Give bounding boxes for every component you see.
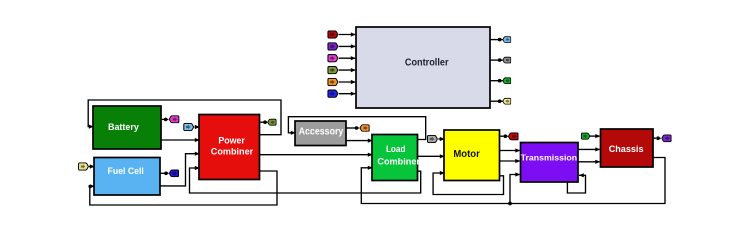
svg-text:Power: Power — [218, 135, 245, 146]
wire fuelcell out1 -> dark blue tag — [160, 172, 165, 174]
wire controller output 4 — [490, 100, 503, 102]
arrow into Transmission in2 — [515, 159, 520, 163]
wire Motor out1 -> red tag — [500, 135, 504, 137]
tag controller-in 3 (magenta) — [328, 55, 338, 62]
svg-text:Combiner: Combiner — [377, 156, 420, 167]
tag fuelcell-in source (pale yellow) — [79, 163, 89, 170]
wire Chassis out1 -> purple tag — [652, 137, 656, 139]
tag motor-in source (gray) — [428, 135, 438, 142]
wire battery out2 -> PowerCombiner in2 — [161, 139, 198, 141]
svg-text:Transmission: Transmission — [521, 153, 578, 163]
tag controller-in 5 (orange) — [328, 78, 338, 85]
tag fuelcell-out (dark blue, sink) — [169, 170, 178, 177]
block Controller — [356, 27, 490, 108]
tag controller-out 3 (green) — [503, 78, 511, 84]
block Power Combiner — [199, 115, 260, 180]
wire Transmission out1 -> Chassis in2 — [578, 148, 600, 150]
wire controller input 2 — [339, 45, 355, 47]
arrow into Accessory in — [291, 131, 296, 135]
wire gray tag -> Motor in1 — [438, 138, 443, 140]
tag controller-in 2 (purple) — [328, 43, 338, 50]
wire transmission self-loop: bottom port -> Transmission right port — [567, 175, 585, 193]
arrow into Battery in — [89, 125, 94, 129]
wire fuelcell feedback: PowerCombiner out4 -> bottom -> FuelCell in2 — [90, 171, 277, 205]
tag chassis-out (purple, sink) — [662, 135, 671, 142]
arrow into PowerCombiner in3 — [195, 152, 200, 156]
arrow into Chassis in2 — [595, 147, 600, 151]
arrow into PowerCombiner in1 — [195, 125, 200, 129]
tag powercombiner-in source (light blue) — [184, 123, 194, 130]
block Fuel Cell — [94, 158, 160, 196]
tag battery-out (magenta, sink) — [169, 116, 179, 123]
tag controller-in 6 (blue) — [328, 90, 338, 97]
wire LoadCombiner out2 -> Motor in2 — [418, 155, 444, 157]
arrow into magenta tag — [164, 118, 168, 122]
svg-text:Fuel Cell: Fuel Cell — [108, 166, 144, 177]
tag powercombiner-out (olive, sink) — [268, 119, 276, 125]
wire Accessory out1 -> orange tag — [346, 127, 357, 129]
tag chassis-in source (green) — [581, 133, 589, 139]
arrow into Transmission right port (pointing left) — [579, 173, 584, 177]
tag controller-out 2 (gray) — [503, 57, 511, 63]
arrows on Controller outputs — [498, 38, 502, 42]
block Transmission — [521, 143, 579, 183]
wire Accessory out2 -> LoadCombiner in1 — [346, 140, 371, 142]
wire controller output 1 — [490, 39, 503, 41]
arrow into LoadCombiner in3 — [368, 166, 373, 170]
wire Motor out2 -> Transmission in1 — [500, 150, 520, 152]
wire light blue tag -> PowerCombiner in1 — [195, 126, 199, 128]
arrow into LoadCombiner in2 — [368, 153, 373, 157]
arrow into PowerCombiner in2 — [195, 138, 200, 142]
block Load Combiner — [372, 135, 420, 181]
wire green tag -> Chassis in1 — [590, 135, 600, 137]
wire yellow tag -> FuelCell in1 — [89, 166, 93, 168]
tag controller-in 1 (dark red) — [328, 31, 338, 38]
wire controller input 6 — [339, 93, 355, 95]
arrow into Motor in3 — [440, 171, 445, 175]
tag motor-out (red, sink) — [509, 133, 519, 140]
arrow into dark blue tag — [164, 172, 168, 176]
arrow into Motor in1 — [440, 137, 445, 141]
wire controller input 4 — [339, 69, 355, 71]
wire fuelcell out2 -> PowerCombiner in3 — [160, 154, 198, 186]
wire chassis feedback: Chassis right port -> bottom -> LoadCombiner in3 — [361, 158, 665, 204]
wire PowerCombiner out1 -> olive tag — [260, 121, 266, 123]
arrow into purple tag — [656, 136, 660, 140]
arrow into orange tag — [355, 126, 359, 130]
arrow into Chassis in3 — [595, 160, 600, 164]
wire Motor out3 -> Transmission in2 — [500, 160, 520, 162]
svg-text:Battery: Battery — [108, 122, 139, 133]
arrow into Motor in2 — [440, 154, 445, 158]
arrow into red tag — [504, 134, 508, 138]
tag controller-out 4 (pale yellow) — [503, 98, 511, 104]
tag controller-in 4 (olive) — [328, 66, 338, 73]
wire Transmission out2 -> Chassis in3 — [578, 161, 600, 163]
block Battery — [93, 106, 161, 149]
block Motor — [444, 130, 500, 181]
svg-text:Combiner: Combiner — [211, 147, 254, 158]
wire battery out1 -> magenta tag — [161, 118, 167, 120]
wire controller input 1 — [339, 34, 355, 36]
arrow into PowerCombiner in4 — [195, 166, 200, 170]
wire controller output 2 — [490, 59, 503, 61]
svg-text:Load: Load — [386, 144, 406, 155]
wire chassis feedback branch -> Transmission in3 — [510, 175, 520, 204]
tag accessory-out (orange, sink) — [360, 125, 369, 132]
wire controller output 3 — [490, 80, 503, 82]
block Accessory — [295, 121, 346, 146]
wire PowerCombiner out3 -> LoadCombiner in2 — [260, 154, 372, 156]
wire controller input 5 — [339, 81, 355, 83]
wire controller input 3 — [339, 57, 355, 59]
svg-text:Accessory: Accessory — [299, 127, 344, 138]
arrow into Transmission in1 — [515, 148, 520, 152]
arrow into FuelCell in1 — [90, 164, 95, 168]
junction dot fuel cell feedback corner — [88, 185, 91, 188]
wire LoadCombiner out1 -> over the top -> Accessory in — [288, 117, 425, 140]
arrow into FuelCell in2 — [90, 184, 95, 188]
tag controller-out 1 (light blue) — [503, 37, 511, 43]
svg-text:Motor: Motor — [453, 149, 480, 160]
arrow into Chassis in1 — [595, 134, 600, 138]
arrow into Transmission in3 — [515, 172, 520, 176]
arrow into olive tag — [263, 120, 267, 124]
wire battery feedback: PowerCombiner out2 -> top -> Battery in — [88, 100, 281, 135]
arrow into LoadCombiner in1 — [368, 139, 373, 143]
block Chassis — [601, 129, 654, 167]
wire LoadCombiner right port -> PowerCombiner in4 — [190, 168, 421, 193]
svg-text:Chassis: Chassis — [609, 144, 644, 155]
junction dot chassis feedback / transmission branch — [508, 202, 512, 206]
arrows into Controller inputs — [351, 32, 356, 36]
wire motor self-loop: Motor right port -> under -> Motor in3 — [433, 173, 503, 195]
svg-text:Controller: Controller — [405, 57, 449, 68]
